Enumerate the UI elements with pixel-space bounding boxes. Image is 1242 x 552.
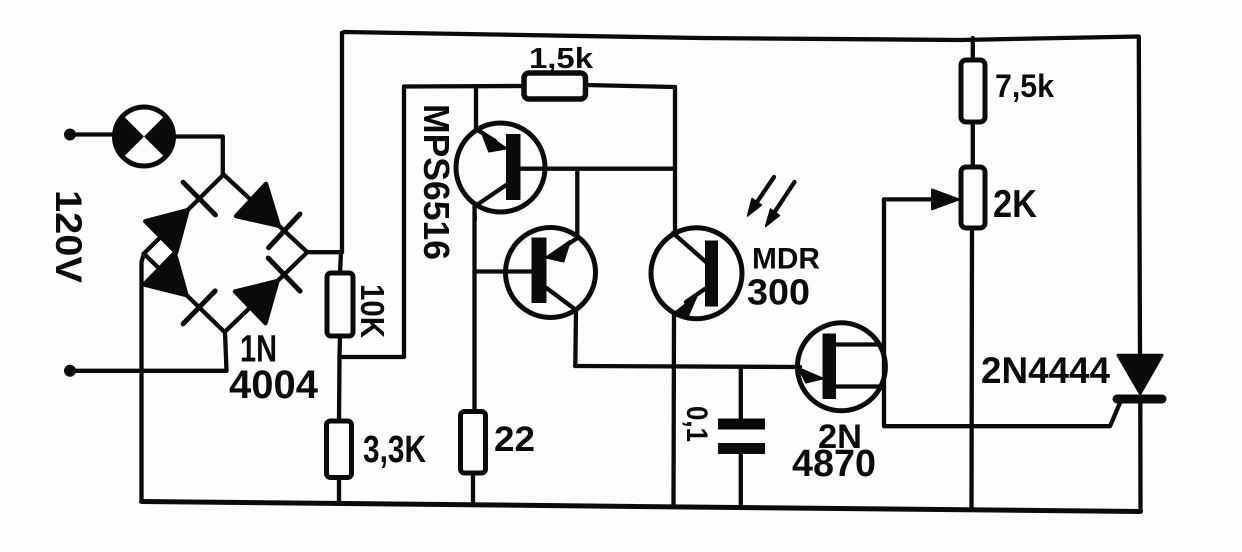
MDR bar [705, 241, 718, 307]
Q1 base wire to right column [520, 167, 675, 171]
wire left column top (to top rail) [340, 33, 344, 252]
wire rail junction down to Q1 emitter [474, 86, 478, 130]
node AC terminal bottom (dot) [64, 365, 76, 377]
Q1 emitter arrow [476, 129, 507, 152]
capacitor 0,1 top plate [718, 419, 765, 430]
Q2 base bar [532, 238, 547, 304]
bottom rail [142, 502, 1141, 512]
wire Q4 B1 to SCR gate [884, 387, 1121, 427]
Q4 base1 lead [836, 384, 884, 388]
potentiometer 2K [961, 167, 985, 228]
transistor MDR300 circle [651, 228, 742, 319]
diode D3 (bridge bottom-left) [144, 253, 215, 324]
wire SCR cathode to bottom rail [1138, 403, 1142, 512]
svg-text:2N4444: 2N4444 [981, 350, 1110, 391]
resistor 3,3K [327, 421, 352, 478]
wire B2 up to pot wiper [882, 199, 886, 386]
svg-text:1,5k: 1,5k [529, 43, 594, 75]
wire MDR emitter down to bottom rail [671, 314, 676, 508]
Q4 base2 lead [836, 342, 884, 346]
pot wiper arrow [884, 190, 959, 210]
wire column to 10K top [340, 252, 341, 273]
thyristor cathode bar [1117, 395, 1162, 404]
top rail [342, 32, 1139, 40]
svg-text:MPS6516: MPS6516 [416, 104, 457, 260]
second rail (left segment to 1,5k) [404, 84, 524, 89]
resistor 7,5k [961, 60, 985, 122]
wire terminal bottom to bridge bottom corner [70, 332, 227, 371]
wire Q2 base [475, 269, 533, 273]
svg-text:0,1: 0,1 [680, 406, 713, 442]
svg-text:22: 22 [494, 420, 535, 459]
wire 3,3K bottom to bottom rail [337, 478, 341, 504]
transistor Q2 circle [506, 228, 596, 318]
diode D2 (bridge top-right) [236, 184, 300, 248]
wire terminal to lamp [70, 132, 113, 136]
diode D4 (bridge bottom-right) [235, 258, 300, 323]
svg-text:2K: 2K [993, 183, 1037, 226]
wire bridge right corner to left column [307, 250, 342, 254]
svg-text:3,3K: 3,3K [363, 429, 426, 471]
wire 10K bottom to junction [337, 336, 342, 357]
Q4 emitter arrow [799, 368, 823, 383]
Q4 bar [823, 334, 837, 400]
svg-text:7,5k: 7,5k [995, 68, 1054, 104]
transistor Q4 2N4870 circle [797, 323, 885, 411]
Q1 collector line [475, 185, 508, 221]
Q2 collector line down to bus [547, 288, 577, 366]
wire 7,5k to 2K [971, 122, 975, 167]
capacitor 0,1 bottom plate [718, 443, 765, 454]
resistor 1,5k [524, 73, 586, 99]
MDR collector line [673, 233, 706, 262]
wire junction to second-rail column [340, 87, 405, 358]
Q2 emitter arrow (to Q1 base) [546, 169, 577, 262]
wire 22 bottom to bottom rail [471, 473, 475, 505]
wire cap to bus [739, 367, 743, 420]
MDR emitter arrow [674, 289, 706, 318]
wire Q1 collector column down to 22 [472, 212, 476, 412]
wire top rail right corner down to SCR anode [1139, 38, 1140, 356]
svg-text:4870: 4870 [792, 443, 876, 485]
emitter bus wire [575, 366, 800, 367]
light arrow 2 [766, 182, 795, 227]
wire top rail to 7,5k [971, 38, 975, 60]
wire 2K bottom to bottom rail [969, 228, 974, 510]
light arrow 1 [748, 177, 775, 216]
resistor 10K [327, 273, 353, 336]
svg-text:120V: 120V [48, 190, 89, 283]
diode D1 (bridge top-left) [145, 182, 215, 252]
wire lamp to bridge top [174, 137, 223, 175]
svg-text:300: 300 [747, 272, 810, 313]
node AC terminal top (dot) [64, 129, 76, 141]
lamp (load) [114, 107, 174, 166]
Q1 base bar [506, 134, 521, 200]
svg-text:10K: 10K [354, 284, 391, 338]
resistor 22 [461, 412, 486, 474]
wire bridge left corner down to bottom rail [142, 254, 144, 502]
svg-text:4004: 4004 [229, 363, 319, 407]
diode bridge 1N4004 outline [144, 175, 307, 333]
transistor Q1 MPS6516 circle [456, 123, 545, 212]
thyristor 2N4444 triangle [1118, 355, 1162, 393]
wire cap bottom to rail [739, 454, 743, 508]
wire 1,5k right to corner column [586, 85, 676, 233]
wire 10K junction down to 3,3K [337, 357, 342, 421]
